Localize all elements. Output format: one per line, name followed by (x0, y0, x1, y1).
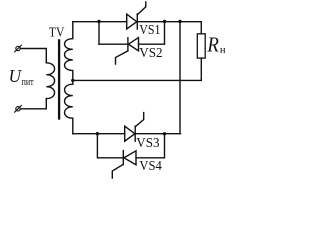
wire VS3 row left (73, 133, 125, 135)
thyristor VS2 (116, 38, 139, 64)
wire node A drop to VS2 row (98, 22, 100, 45)
resistor Rн (197, 34, 205, 58)
svg-text:VS4: VS4 (139, 158, 162, 173)
wire VS2 row right up to node B (139, 22, 165, 45)
wire top rail right (node B) with corner to R top (137, 22, 201, 34)
svg-text:VS3: VS3 (136, 135, 159, 150)
wire from primary bottom to lower terminal (20, 99, 46, 109)
wire node B drop to VS3 row (179, 22, 181, 134)
wire VS2 row left (99, 43, 128, 45)
svg-text:VS2: VS2 (139, 45, 162, 60)
wire from upper terminal to primary top (20, 49, 46, 63)
junction VS3 row right (163, 132, 166, 135)
input terminal lower (15, 105, 22, 112)
wire R bottom to center tap rail (73, 58, 202, 80)
svg-text:пит: пит (22, 77, 34, 88)
transformer secondary upper half (65, 22, 73, 84)
node B junction 2 (178, 20, 181, 23)
svg-text:U: U (9, 66, 22, 86)
svg-text:TV: TV (49, 25, 65, 40)
svg-text:н: н (220, 45, 226, 56)
junction VS3 row left (96, 132, 99, 135)
node A junction (97, 20, 100, 23)
transformer primary winding (46, 63, 54, 99)
wire VS4 row right up to VS3 row (136, 134, 165, 158)
wire drop to VS4 row (97, 134, 123, 158)
transformer secondary lower half (65, 84, 73, 134)
center tap node (71, 79, 74, 82)
input terminal upper (15, 45, 22, 52)
node B junction 1 (163, 20, 166, 23)
thyristor VS4 (112, 151, 136, 178)
wire VS3 row right (135, 133, 180, 135)
transformer core (58, 40, 60, 118)
wire top rail left (node A) (73, 21, 127, 23)
thyristor VS1 (127, 2, 146, 29)
svg-text:R: R (207, 33, 220, 57)
svg-text:VS1: VS1 (139, 22, 160, 37)
thyristor VS3 (125, 113, 144, 142)
